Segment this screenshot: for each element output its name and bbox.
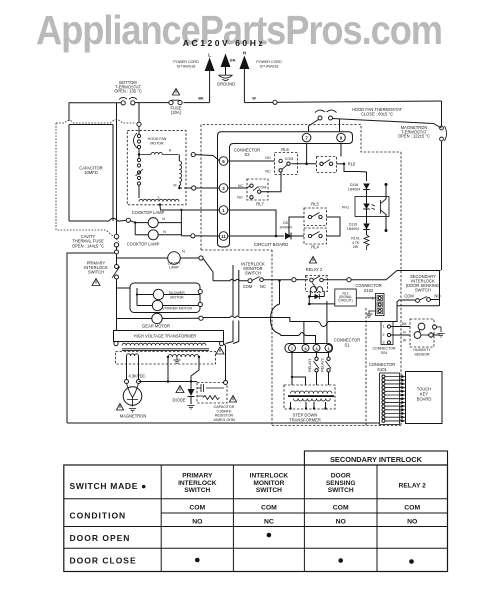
optocoupler PH1 (342, 197, 389, 217)
svg-text:SWITCH: SWITCH (328, 487, 354, 494)
gear motor (117, 313, 200, 328)
hood fan motor box dashed (127, 131, 186, 205)
svg-text:NC: NC (265, 170, 271, 174)
svg-text:COM: COM (189, 505, 205, 512)
relay RL6 (265, 147, 297, 175)
winding H (138, 149, 179, 156)
svg-text:6: 6 (304, 347, 306, 351)
bottom thermostat (114, 80, 142, 105)
svg-text:NO: NO (192, 519, 202, 526)
hood fan motor (134, 133, 167, 149)
svg-text:MOTOR: MOTOR (170, 295, 184, 299)
filament wires down to magnetron (125, 356, 146, 384)
svg-text:N: N (182, 250, 185, 254)
svg-text:1: 1 (327, 347, 329, 351)
svg-text:RELAY 2: RELAY 2 (306, 267, 323, 272)
pin 5 (219, 157, 228, 166)
thermal protector on motor line (136, 149, 144, 199)
svg-text:S/T AWG18: S/T AWG18 (177, 64, 196, 68)
hood fan thermostat (315, 107, 403, 120)
interlock monitor switch (213, 262, 266, 290)
S1 pin drops (291, 353, 293, 386)
main vertical wire to thermal fuse (116, 103, 118, 235)
magnetron thermostat (398, 125, 447, 141)
wire capacitor to transformer terminal (224, 344, 226, 381)
S1 pin 6 (302, 345, 309, 352)
svg-text:L: L (158, 196, 160, 200)
cavity lamp (117, 250, 214, 281)
svg-text:PRIMARY: PRIMARY (182, 473, 213, 480)
wire pin1 right (228, 210, 277, 237)
svg-text:DOOR CLOSE: DOOR CLOSE (70, 556, 137, 566)
svg-text:NC: NC (260, 284, 266, 289)
door open dot monitor switch (267, 533, 272, 538)
svg-text:AC120V 60Hz: AC120V 60Hz (183, 38, 265, 48)
S1 pin 1 (325, 345, 332, 352)
hv secondary winding (167, 355, 200, 364)
wire relay rail to secondary interlock (323, 271, 440, 282)
monitor rail from gear motor (199, 280, 397, 386)
wires S04 to humidity sensor (391, 322, 410, 343)
bottom boundary wire (67, 422, 380, 424)
fuse F1 20A (169, 100, 182, 115)
secondary interlock door sensing switch (397, 271, 441, 311)
primary interlock switch (84, 250, 120, 331)
connector S101 (369, 362, 400, 425)
ground GN arrow and symbol (217, 54, 236, 87)
blower motor (136, 288, 200, 306)
svg-text:N: N (162, 217, 165, 221)
svg-text:COM: COM (261, 505, 277, 512)
svg-text:NO: NO (265, 156, 271, 160)
wire H to pin 5 (138, 153, 220, 162)
svg-text:BK: BK (198, 97, 204, 101)
svg-text:RELAY1: RELAY1 (308, 358, 312, 372)
wire M from winding junction (174, 155, 220, 191)
diode D5 1N4004 (279, 221, 304, 240)
svg-text:GN: GN (230, 59, 236, 63)
wire thermostat to left corner (69, 103, 121, 121)
svg-text:RL7: RL7 (256, 202, 264, 207)
svg-text:STIRRER MOTOR: STIRRER MOTOR (162, 307, 192, 311)
svg-text:TRANSFORMER: TRANSFORMER (289, 418, 321, 423)
svg-text:H: H (169, 149, 172, 153)
svg-text:(20A): (20A) (171, 110, 182, 115)
magnetron (116, 384, 146, 419)
opto collector emitter stubs (385, 183, 388, 232)
svg-text:10MFD: 10MFD (84, 170, 97, 175)
wire pin3 to RL7 (228, 186, 250, 188)
svg-text:2: 2 (383, 333, 385, 337)
svg-text:PH1: PH1 (342, 206, 349, 210)
svg-text:W: W (252, 97, 256, 101)
wire pin11 to D5 (228, 235, 284, 237)
table: switch logic (64, 451, 448, 572)
svg-text:HIGH VOLTAGE TRANSFORMER: HIGH VOLTAGE TRANSFORMER (134, 334, 197, 339)
svg-text:D5: D5 (283, 221, 288, 225)
svg-text:1: 1 (383, 325, 385, 329)
hv filament winding (127, 354, 139, 356)
capacitor resistor dashed box (197, 381, 237, 422)
svg-text:W: W (403, 339, 407, 343)
wire hood fan thermostat left contact to pin7 (309, 120, 319, 133)
table outer border (64, 465, 448, 572)
svg-text:1N4004: 1N4004 (347, 227, 360, 231)
svg-text:BK: BK (402, 322, 407, 326)
wire fuse to bottom thermostat (135, 102, 169, 104)
step down transformer (284, 385, 335, 423)
svg-text:RELAY2: RELAY2 (321, 358, 325, 372)
relay 2 contacts (306, 257, 327, 282)
svg-text:SWITCH: SWITCH (88, 270, 104, 275)
cooktop lamp lower (127, 230, 167, 247)
diode D119 1N4004 (347, 217, 370, 236)
wire RL2 to S102 (356, 297, 375, 299)
svg-text:DIODE: DIODE (173, 398, 186, 403)
svg-text:NC: NC (264, 519, 274, 526)
svg-text:H: H (243, 51, 246, 56)
wire transformer feed rail (292, 377, 306, 385)
connector S1 bar (285, 338, 360, 353)
humidity sensor (410, 319, 445, 356)
relay RL7 (237, 172, 281, 207)
svg-text:SENSOR: SENSOR (414, 352, 430, 356)
wire right edge down to magnetron thermostat (441, 101, 443, 126)
stirrer motor (137, 290, 202, 311)
relay RL4 (304, 226, 340, 250)
hv rail to diode and capacitor (139, 357, 200, 383)
svg-text:SWITCH: SWITCH (184, 487, 210, 494)
connector S102 (355, 283, 384, 316)
power cord L arrow (173, 53, 214, 103)
svg-text:S1: S1 (344, 342, 350, 347)
svg-text:NO: NO (336, 519, 346, 526)
S101 pins and wires to touch key board (382, 375, 406, 422)
resistor R141 4.7K 2W (351, 235, 369, 250)
door close dot relay2 (409, 559, 414, 564)
svg-text:GEAR MOTOR: GEAR MOTOR (142, 324, 170, 329)
svg-text:SENSING: SENSING (326, 480, 356, 487)
wire arc bypass from monitor rail down to S1 area (271, 281, 316, 344)
svg-text:DOOR OPEN: DOOR OPEN (70, 533, 131, 543)
diode D118 1N4004 (348, 183, 370, 197)
svg-text:S2: S2 (244, 152, 250, 157)
node main vertical feed (116, 103, 118, 117)
hv secondary dashed box (116, 352, 216, 365)
wire right contact down to pin9 (339, 119, 341, 132)
lamp wiring (126, 209, 219, 238)
table secondary interlock header box (304, 451, 447, 465)
wires from relay rail down to transformer (226, 265, 239, 344)
wire relay rail junctions (309, 279, 311, 281)
RL6 aux contact box (317, 157, 337, 173)
svg-text:LAMP: LAMP (169, 266, 179, 270)
svg-text:R: R (403, 331, 406, 335)
svg-text:M: M (174, 184, 177, 188)
svg-text:NO: NO (407, 519, 417, 526)
svg-text:DOOR: DOOR (331, 473, 351, 480)
svg-text:SWITCH: SWITCH (256, 487, 282, 494)
svg-text:7: 7 (291, 347, 293, 351)
wire pin5 to RL6 (228, 160, 274, 162)
wire RL6 com to contact box (291, 163, 316, 165)
svg-text:NC: NC (238, 184, 244, 188)
relay2 contacts at S1 (321, 353, 332, 386)
table row lines (64, 499, 448, 549)
svg-text:10MEG-OHM: 10MEG-OHM (213, 418, 235, 422)
svg-text:COM: COM (333, 505, 349, 512)
pin 9 (337, 133, 346, 142)
table column lines (161, 465, 377, 572)
wire monitor to relay2 (263, 278, 308, 282)
pin 3 (219, 184, 228, 193)
svg-text:NO: NO (237, 196, 243, 200)
svg-text:2W: 2W (353, 245, 359, 249)
svg-text:SWITCH MADE ●: SWITCH MADE ● (70, 481, 148, 491)
pin 11 (219, 232, 228, 241)
svg-text:MONITOR: MONITOR (253, 480, 284, 487)
svg-text:S101: S101 (377, 367, 387, 372)
junction pin9 drop (340, 144, 342, 157)
relay RL5 (289, 202, 340, 237)
wire node to left boundary (67, 247, 117, 423)
svg-text:RL4: RL4 (311, 245, 319, 250)
wire hood fan thermostat right to magnetron thermostat (332, 119, 442, 129)
svg-text:SWITCH: SWITCH (245, 271, 261, 276)
junction pin7 drop (305, 144, 308, 166)
pin 7 (302, 133, 311, 142)
hv diode (173, 382, 195, 410)
svg-text:MOTOR: MOTOR (150, 141, 164, 145)
svg-text:COM: COM (243, 284, 253, 289)
wire relay2 to RL2 box (309, 303, 335, 305)
svg-text:GROUND: GROUND (217, 82, 235, 87)
svg-text:COOKTOP LAMP: COOKTOP LAMP (132, 210, 165, 215)
svg-text:CIRCUIT): CIRCUIT) (338, 299, 352, 303)
power cord H arrow (239, 51, 282, 103)
svg-text:COOKTOP LAMP: COOKTOP LAMP (127, 241, 160, 246)
svg-text:CONDITION: CONDITION (70, 511, 127, 521)
svg-text:RELAY 2: RELAY 2 (399, 483, 426, 490)
svg-text:MAGNETRON: MAGNETRON (120, 414, 147, 419)
svg-text:1N4004: 1N4004 (348, 187, 361, 191)
svg-text:COM: COM (404, 505, 420, 512)
svg-text:1N4004: 1N4004 (279, 226, 292, 230)
svg-text:RL6: RL6 (281, 147, 289, 152)
svg-text:OPEN : 144±5 °C: OPEN : 144±5 °C (72, 243, 104, 248)
wire relay2 box to S1 pin1 (326, 301, 328, 344)
svg-text:3: 3 (315, 347, 317, 351)
RL2 signal circuit box (335, 289, 357, 306)
high voltage transformer (114, 331, 225, 355)
wire winding junction to pin 1 line (160, 205, 220, 210)
svg-text:RL5: RL5 (311, 202, 319, 207)
motor box (117, 283, 201, 313)
svg-text:RL6: RL6 (348, 162, 356, 167)
dashed circuit board outline upper (201, 125, 401, 426)
svg-text:OPEN : 122±5 °C: OPEN : 122±5 °C (398, 134, 430, 139)
cavity thermal fuse (72, 234, 119, 248)
relay1 contacts (308, 353, 319, 386)
svg-text:S/T AWG18: S/T AWG18 (260, 64, 279, 68)
svg-text:COM: COM (258, 186, 266, 190)
connector S2 L-shaped bar (218, 132, 353, 247)
svg-text:CIRCUIT BOARD: CIRCUIT BOARD (254, 242, 289, 247)
touch key board (406, 372, 443, 424)
door close dot primary (195, 558, 200, 563)
svg-text:S04: S04 (381, 351, 387, 355)
relay 2 coil box (306, 276, 328, 306)
svg-text:4.3KVDC: 4.3KVDC (128, 374, 145, 379)
connector S04 (372, 322, 395, 355)
door close dot door sensing (338, 558, 343, 563)
svg-text:11: 11 (221, 234, 226, 239)
capacitor C1 10MFD (69, 125, 126, 222)
wire L to fuse (184, 102, 210, 104)
svg-text:L: L (208, 53, 211, 58)
svg-text:CLOSE : 60±5 °C: CLOSE : 60±5 °C (361, 112, 393, 117)
wire to RL6 label (337, 162, 367, 182)
wire magnetron thermostat down right side (441, 141, 443, 270)
svg-text:COM: COM (404, 294, 414, 299)
svg-text:OPEN : 135 °C: OPEN : 135 °C (114, 89, 142, 94)
svg-text:COM: COM (285, 157, 293, 161)
winding L bottom (139, 196, 179, 206)
svg-text:SECONDARY INTERLOCK: SECONDARY INTERLOCK (330, 455, 423, 464)
ground at S102 (365, 311, 375, 318)
wire feed to hood fan motor (137, 103, 141, 134)
pin 1 (219, 206, 228, 215)
svg-text:N: N (163, 230, 166, 234)
svg-text:INTERLOCK: INTERLOCK (250, 473, 289, 480)
svg-text:S102: S102 (364, 288, 374, 293)
svg-text:3: 3 (383, 341, 385, 345)
svg-text:INTERLOCK: INTERLOCK (178, 480, 217, 487)
svg-text:BOARD: BOARD (417, 397, 432, 402)
capacitor enclosure dashed outline (56, 120, 135, 242)
warning triangle near fuse (172, 89, 179, 96)
cooktop lamp upper (132, 210, 166, 228)
S1 pin 7 (289, 345, 296, 352)
S1 pin 3 (313, 345, 320, 352)
svg-text:SWITCH: SWITCH (415, 288, 431, 293)
wire W from H arrow to right edge (244, 97, 441, 105)
